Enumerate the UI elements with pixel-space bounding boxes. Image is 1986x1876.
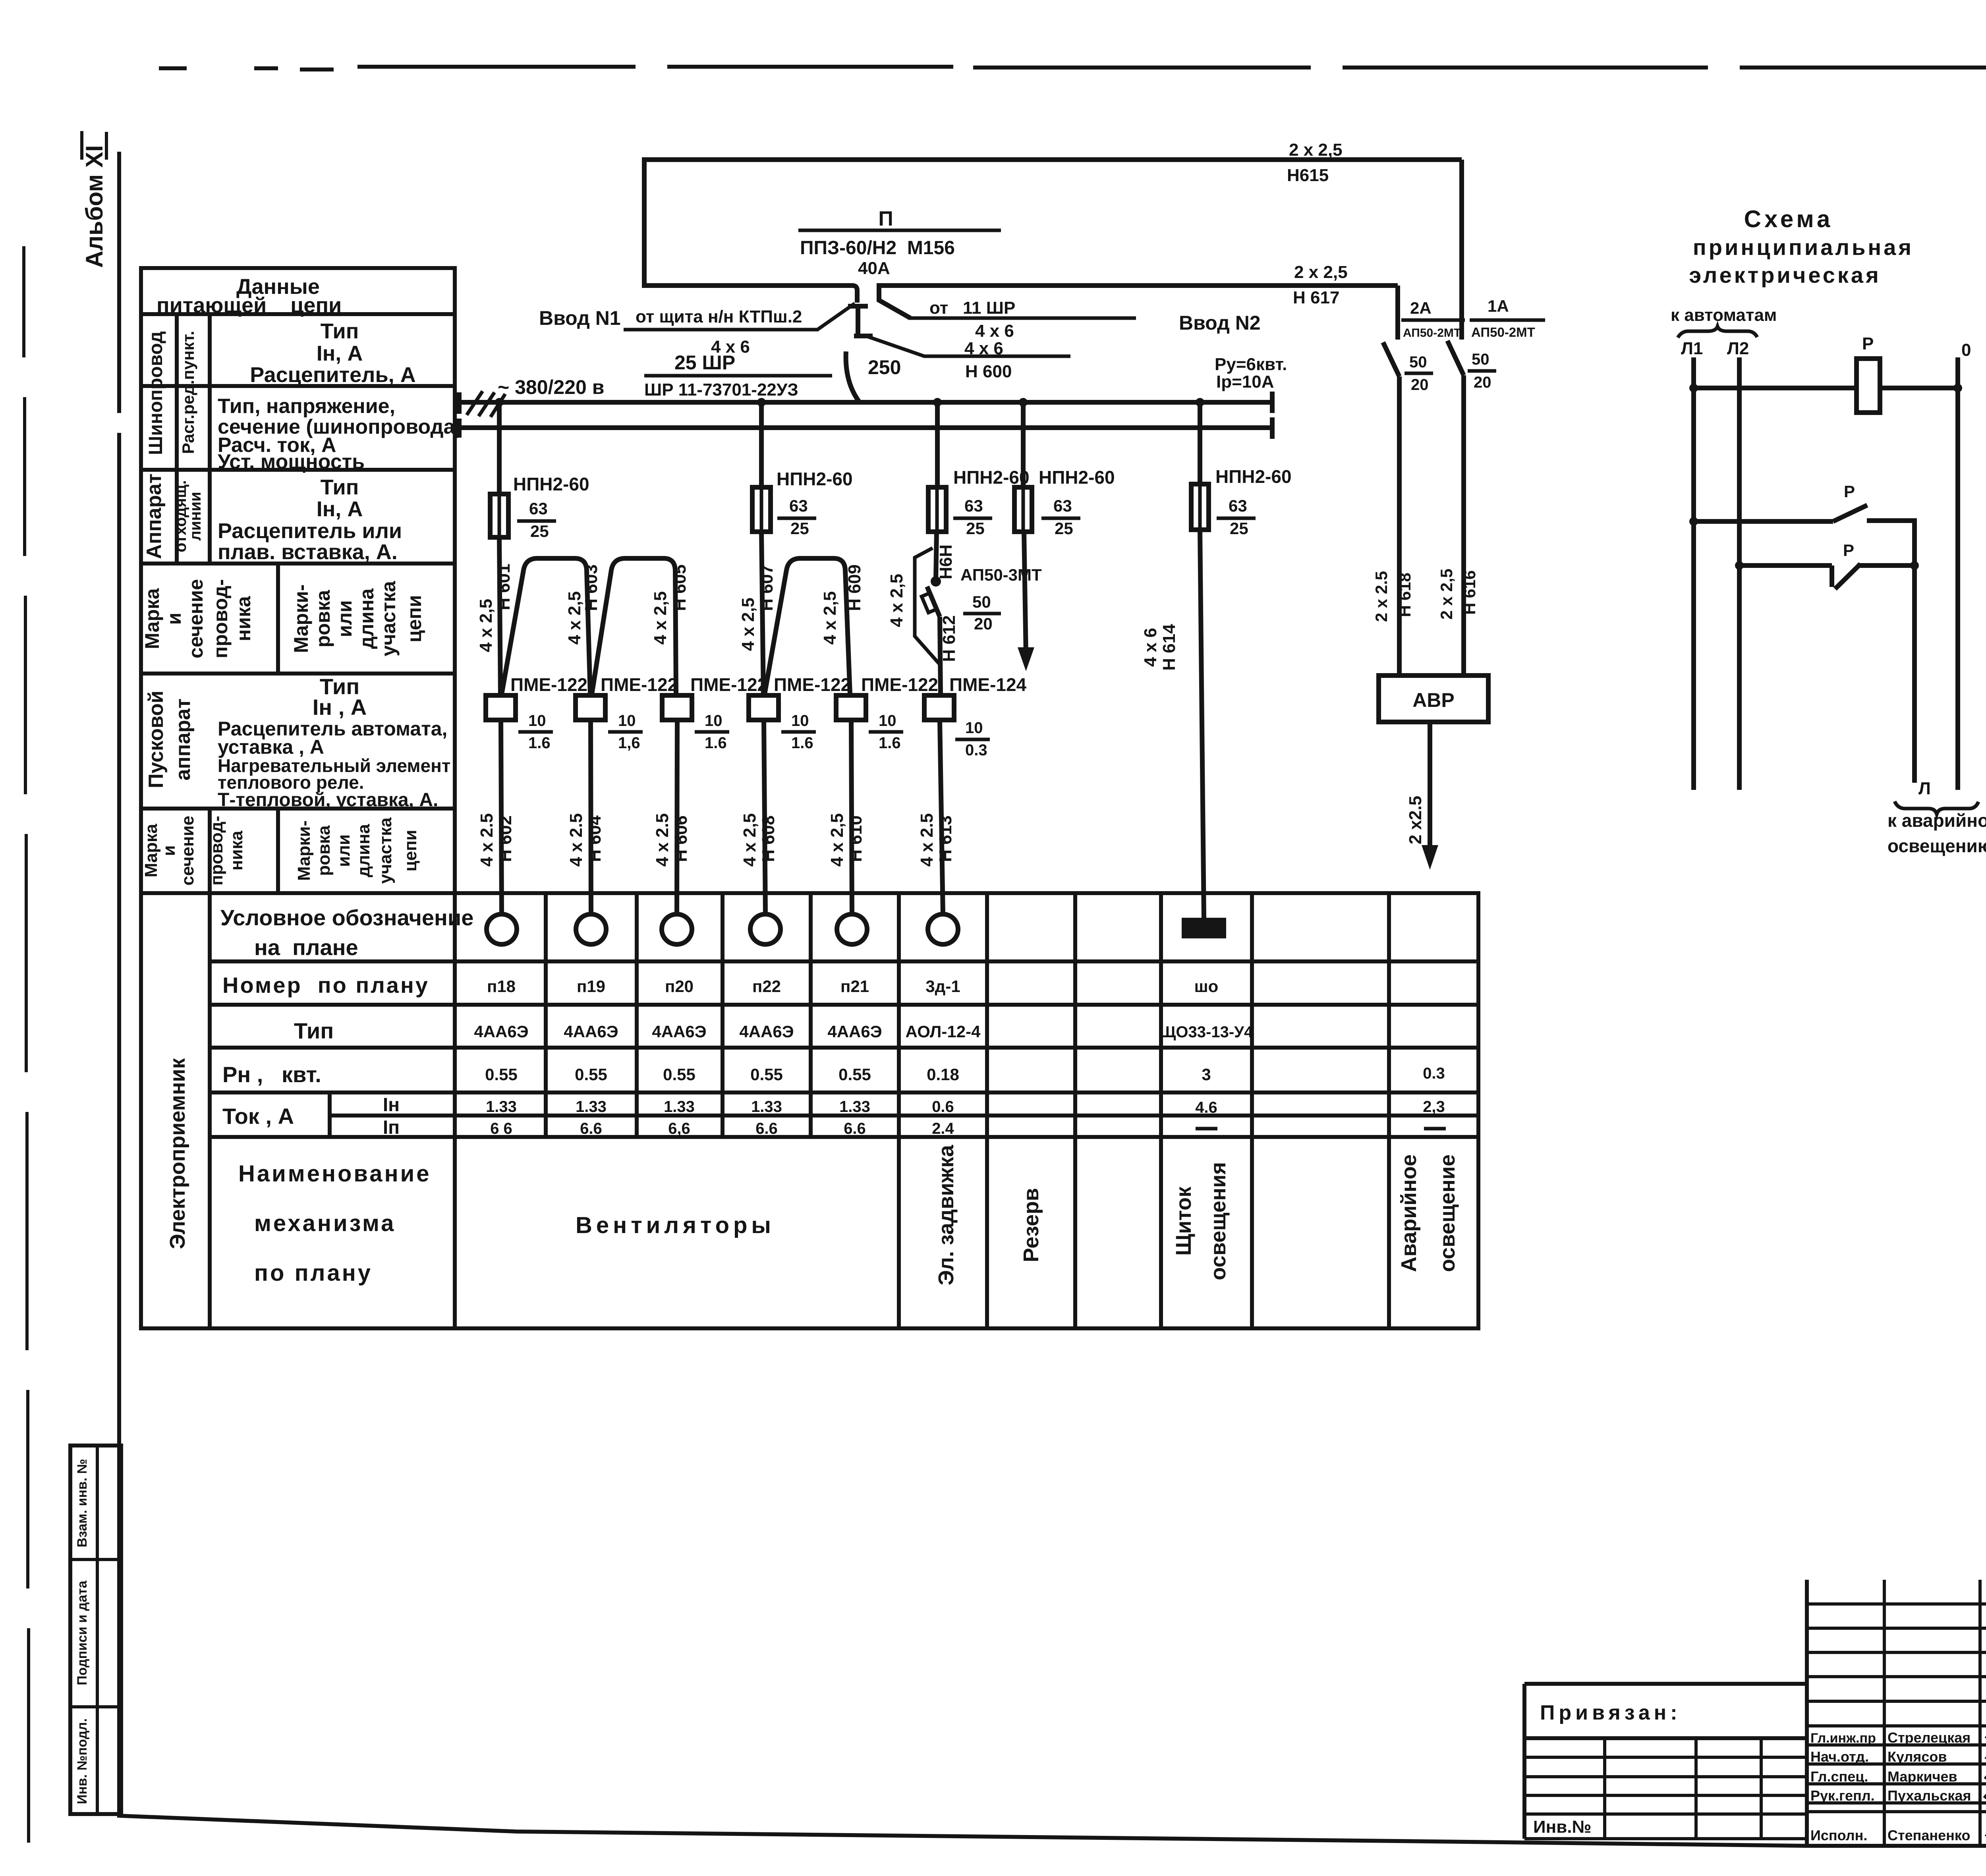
bottom table outer [141, 893, 1478, 1328]
svg-text:Схема: Схема [1744, 206, 1833, 232]
svg-text:п18: п18 [487, 977, 516, 996]
svg-text:или: или [334, 834, 354, 867]
svg-text:Тип: Тип [321, 475, 359, 499]
svg-text:ПМЕ-122: ПМЕ-122 [861, 674, 938, 695]
svg-text:Альбом XI: Альбом XI [81, 145, 108, 268]
svg-text:1.6: 1.6 [528, 734, 551, 752]
svg-text:25 ШР: 25 ШР [674, 351, 735, 374]
junction dot lamp line [1910, 561, 1919, 570]
svg-text:Н 617: Н 617 [1293, 288, 1339, 307]
bus right end bars [1270, 392, 1275, 439]
svg-text:Ввод N2: Ввод N2 [1179, 312, 1261, 334]
svg-text:Н 602: Н 602 [496, 815, 515, 862]
feeder wire 2 [761, 402, 763, 695]
contact P no2 blade [1835, 564, 1860, 589]
svg-text:ППЗ-60/Н2 М156: ППЗ-60/Н2 М156 [800, 237, 955, 259]
svg-text:1.33: 1.33 [839, 1098, 870, 1116]
left stamp column box [70, 1446, 121, 1814]
svg-text:Резерв: Резерв [1019, 1188, 1043, 1262]
svg-text:4 х 2.5: 4 х 2.5 [917, 813, 937, 867]
svg-text:сечение: сечение [185, 579, 207, 658]
svg-text:Н 605: Н 605 [670, 564, 690, 611]
svg-text:4АА6Э: 4АА6Э [652, 1022, 706, 1041]
fuse P PPZ-60 label fraction [798, 229, 1001, 232]
svg-text:Электроприемник: Электроприемник [166, 1058, 189, 1249]
signature table columns [1884, 1580, 1986, 1846]
loop link T1 to PME2 (wire N603) [502, 558, 590, 694]
svg-text:Степаненко: Степаненко [1887, 1827, 1970, 1843]
svg-text:6.6: 6.6 [580, 1120, 602, 1137]
tok A divider [328, 1092, 332, 1137]
svg-text:6,6: 6,6 [668, 1120, 690, 1137]
svg-text:4 х 2,5: 4 х 2,5 [820, 591, 840, 645]
svg-text:Н 618: Н 618 [1395, 573, 1414, 617]
motor symbol circles [487, 914, 517, 944]
svg-text:0.55: 0.55 [838, 1065, 871, 1084]
svg-text:к аварийному: к аварийному [1887, 810, 1986, 831]
svg-text:Инв. №подл.: Инв. №подл. [75, 1718, 90, 1804]
svg-text:Iн, А: Iн, А [317, 497, 363, 521]
svg-text:1.6: 1.6 [791, 734, 813, 752]
svg-text:электрическая: электрическая [1689, 262, 1881, 288]
feeder wire 4 [1023, 402, 1026, 656]
svg-text:п21: п21 [840, 977, 869, 996]
svg-text:Н 608: Н 608 [759, 815, 778, 862]
svg-text:2 х 2,5: 2 х 2,5 [1294, 262, 1348, 282]
svg-text:20: 20 [1411, 376, 1429, 394]
bus left end bars [457, 392, 462, 438]
top border (dashed) [159, 67, 1986, 69]
wire N615 loop (top line + left leg + bottom run to switch) [644, 160, 1462, 303]
svg-text:25: 25 [1055, 519, 1073, 538]
wire N617 (second line to AVR) with stub [879, 286, 1398, 318]
junction dot feeder4 [1019, 398, 1028, 407]
svg-text:Р: Р [1843, 541, 1854, 560]
svg-text:0.18: 0.18 [927, 1065, 959, 1084]
motor branch wire N613 [940, 720, 943, 914]
svg-text:3д-1: 3д-1 [925, 977, 960, 996]
svg-text:Л: Л [1918, 779, 1931, 798]
svg-text:АП50-3МТ: АП50-3МТ [960, 566, 1042, 584]
svg-text:Инв.№: Инв.№ [1533, 1817, 1592, 1837]
contact P no1 blade [1833, 505, 1867, 521]
junction dot feeder1 [495, 398, 504, 407]
svg-text:0.55: 0.55 [575, 1065, 607, 1084]
phase line L1 [1691, 357, 1696, 790]
svg-text:Н 604: Н 604 [585, 815, 605, 862]
svg-text:освещение: освещение [1435, 1154, 1459, 1272]
motor branch wire N606 [677, 720, 677, 914]
svg-text:10: 10 [705, 712, 723, 730]
svg-text:Шинопровод: Шинопровод [145, 331, 166, 455]
svg-text:10: 10 [618, 712, 636, 730]
svg-text:Ввод N1: Ввод N1 [539, 307, 621, 329]
svg-text:питающей цепи: питающей цепи [156, 293, 342, 317]
motor branch wire N610 [851, 720, 852, 914]
signature table frame [1807, 1580, 1986, 1846]
svg-text:0.6: 0.6 [932, 1098, 954, 1116]
starter PME-124 no6 [924, 695, 954, 720]
svg-text:Условное обозначение: Условное обозначение [220, 905, 473, 930]
svg-text:Кулясов: Кулясов [1887, 1749, 1947, 1765]
svg-text:Рн , квт.: Рн , квт. [222, 1062, 321, 1087]
svg-text:Л2: Л2 [1727, 339, 1749, 358]
svg-text:4 х 2,5: 4 х 2,5 [887, 574, 906, 627]
svg-text:п19: п19 [577, 977, 605, 996]
fuse F4 NPN2-60 [1014, 487, 1032, 532]
starter PME-122 no1 [486, 695, 516, 720]
contact P no1 wire [1694, 521, 1915, 566]
svg-text:Н 613: Н 613 [936, 815, 955, 862]
coil circuit wire [1694, 386, 1958, 390]
svg-text:2.4: 2.4 [932, 1120, 954, 1137]
svg-text:Iп: Iп [383, 1117, 400, 1138]
left outer dashed border [24, 246, 29, 1843]
svg-text:Н 606: Н 606 [671, 815, 691, 862]
svg-text:10: 10 [965, 719, 983, 737]
svg-text:63: 63 [1229, 496, 1247, 515]
svg-text:Пухальская: Пухальская [1887, 1787, 1971, 1804]
svg-text:6.6: 6.6 [755, 1120, 778, 1137]
bus hatch marks [467, 391, 505, 417]
junction dot L2 contact [1735, 561, 1744, 570]
svg-text:ника: ника [232, 596, 255, 641]
svg-text:Н 601: Н 601 [494, 564, 514, 610]
svg-text:20: 20 [1474, 374, 1491, 391]
privyazan box [1524, 1684, 1807, 1839]
svg-text:уставка , А: уставка , А [218, 736, 324, 758]
svg-text:4.6: 4.6 [1195, 1099, 1217, 1116]
breaker 1A blade [1447, 341, 1464, 375]
row lines [210, 961, 1478, 1137]
svg-text:2 х 2.5: 2 х 2.5 [1372, 571, 1391, 622]
electropriyomnik column [208, 893, 212, 1328]
svg-text:4 х 2.5: 4 х 2.5 [566, 813, 586, 867]
signature table row lines [1807, 1604, 1986, 1812]
svg-text:аппарат: аппарат [172, 699, 195, 781]
svg-text:0.55: 0.55 [485, 1065, 518, 1084]
svg-text:Расг.ред.пункт.: Расг.ред.пункт. [179, 331, 197, 454]
svg-text:63: 63 [1053, 496, 1072, 515]
svg-text:ровка: ровка [314, 825, 334, 876]
motor branch wire N604 [591, 720, 591, 914]
svg-text:0.3: 0.3 [965, 741, 987, 759]
svg-text:НПН2-60: НПН2-60 [777, 469, 853, 489]
svg-text:Щиток: Щиток [1172, 1186, 1196, 1256]
left stamp inner divider [70, 1446, 121, 1814]
BOTTOM CONSUMERS TABLE [141, 893, 1478, 1328]
svg-text:Н6Н: Н6Н [936, 544, 956, 579]
svg-text:1.33: 1.33 [751, 1098, 782, 1116]
svg-text:1.33: 1.33 [664, 1098, 695, 1116]
svg-text:250: 250 [868, 356, 901, 378]
svg-text:Iн , А: Iн , А [313, 695, 367, 720]
svg-text:4 х 2,5: 4 х 2,5 [740, 813, 759, 867]
svg-text:0.55: 0.55 [750, 1065, 783, 1084]
svg-text:ШР 11-73701-22УЗ: ШР 11-73701-22УЗ [644, 380, 798, 400]
svg-text:4 х 2,5: 4 х 2,5 [738, 598, 758, 651]
fuse F1 NPN2-60 [490, 494, 508, 537]
svg-text:Марки-: Марки- [290, 584, 312, 653]
svg-text:от щита н/н КТПш.2: от щита н/н КТПш.2 [636, 307, 802, 326]
svg-text:цепи: цепи [403, 595, 425, 642]
svg-text:4АА6Э: 4АА6Э [739, 1022, 794, 1041]
svg-text:участка: участка [376, 817, 395, 884]
wire from N617 down to breaker 2A [1395, 286, 1400, 340]
svg-text:Р: Р [1862, 334, 1874, 353]
AVR unit box [1379, 676, 1488, 722]
svg-text:4 х 2.5: 4 х 2.5 [477, 813, 496, 867]
svg-text:ЩО33-13-У4: ЩО33-13-У4 [1160, 1023, 1253, 1041]
MAIN ONE-LINE DIAGRAM [459, 140, 1462, 918]
contact P no2 wire [1739, 566, 1915, 587]
svg-text:1,6: 1,6 [618, 734, 640, 752]
left inner border [117, 152, 121, 1816]
svg-text:4 х 6: 4 х 6 [975, 321, 1014, 341]
breaker 2A blade [1383, 342, 1399, 376]
svg-text:от 11 ШР: от 11 ШР [929, 298, 1015, 318]
breaker AP50-3MT blade [927, 587, 940, 617]
svg-text:0: 0 [1961, 340, 1971, 360]
motor branch wire N602 [501, 720, 502, 914]
svg-text:НПН2-60: НПН2-60 [953, 467, 1030, 488]
svg-text:АВР: АВР [1412, 689, 1455, 711]
feeder wire 3 [936, 402, 937, 581]
neutral line 0 [1955, 357, 1960, 790]
svg-text:Взам. инв. №: Взам. инв. № [75, 1459, 90, 1547]
svg-text:4АА6Э: 4АА6Э [564, 1022, 618, 1041]
svg-text:2 х2.5: 2 х2.5 [1406, 796, 1425, 844]
album label overline [82, 131, 106, 160]
svg-text:25: 25 [530, 522, 549, 540]
svg-text:Наименование: Наименование [238, 1161, 431, 1187]
svg-text:Гл.инж.пр: Гл.инж.пр [1810, 1731, 1876, 1746]
label col right edge [453, 893, 457, 1328]
svg-text:10: 10 [879, 712, 896, 730]
svg-text:АОЛ-12-4: АОЛ-12-4 [906, 1022, 981, 1041]
svg-text:6.6: 6.6 [844, 1120, 866, 1137]
privyazan grid rows [1524, 1757, 1807, 1839]
svg-text:Л1: Л1 [1681, 339, 1703, 358]
svg-text:Н615: Н615 [1287, 166, 1329, 185]
AVR BRANCH [1372, 139, 1986, 870]
svg-text:10: 10 [528, 712, 546, 730]
svg-text:П: П [878, 207, 893, 230]
svg-text:25: 25 [790, 519, 809, 538]
privyazan grid cols [1605, 1738, 1761, 1839]
svg-text:Уст. мощность: Уст. мощность [218, 450, 365, 473]
svg-text:2А: 2А [1410, 299, 1432, 317]
svg-text:ПМЕ-124: ПМЕ-124 [949, 674, 1027, 695]
svg-text:50: 50 [1409, 353, 1427, 371]
lamp feeder line L [1912, 566, 1917, 783]
svg-text:2 х 2,5: 2 х 2,5 [1437, 569, 1456, 620]
svg-text:3: 3 [1202, 1065, 1211, 1084]
svg-text:Номер по плану: Номер по плану [222, 973, 429, 998]
svg-text:ровка: ровка [312, 589, 334, 647]
svg-text:провод-: провод- [209, 579, 232, 658]
svg-text:Тип: Тип [294, 1018, 334, 1043]
svg-text:Привязан:: Привязан: [1540, 1701, 1681, 1724]
svg-text:4 х 2,5: 4 х 2,5 [476, 599, 496, 652]
svg-text:40А: 40А [858, 259, 890, 278]
svg-text:Исполн.: Исполн. [1810, 1827, 1867, 1843]
breaker AP50-3MT case [922, 593, 936, 612]
svg-text:длина: длина [355, 588, 378, 649]
svg-text:по плану: по плану [254, 1260, 373, 1286]
bottom border (sloped) [117, 1816, 1807, 1846]
col dividers rows2-4 [177, 314, 210, 893]
feeder wire 5 [1200, 402, 1204, 918]
junction dot feeder3 [933, 398, 942, 407]
svg-text:1.33: 1.33 [576, 1098, 607, 1116]
svg-text:10: 10 [791, 712, 809, 730]
junction dot L1 contact [1689, 517, 1698, 526]
svg-text:4 х 6: 4 х 6 [1141, 628, 1160, 667]
svg-text:ПМЕ-122: ПМЕ-122 [510, 674, 587, 695]
svg-text:4 х 2,5: 4 х 2,5 [651, 591, 670, 645]
switch QS 250 (input disconnector) [848, 306, 873, 336]
wire from N615 down to breaker 1A [1459, 160, 1464, 340]
svg-text:цепи: цепи [401, 830, 420, 871]
svg-text:1А: 1А [1488, 297, 1509, 315]
data col lines full [899, 893, 1389, 1328]
svg-text:АП50-2МТ: АП50-2МТ [1403, 326, 1461, 340]
reserve arrow head [1018, 647, 1034, 671]
starter PME-122 no2 [576, 695, 605, 720]
svg-text:Н 616: Н 616 [1460, 570, 1479, 615]
svg-text:НПН2-60: НПН2-60 [1215, 466, 1292, 487]
svg-text:6 6: 6 6 [490, 1120, 512, 1137]
relay P coil [1857, 359, 1880, 413]
wire N618 [1397, 376, 1402, 676]
AVR output wire 2x2.5 [1428, 722, 1432, 852]
svg-text:линии: линии [187, 492, 204, 540]
row5/7 cell divider [276, 564, 280, 893]
starter PME-122 no4 [749, 695, 779, 720]
svg-text:Рук.гепл.: Рук.гепл. [1810, 1787, 1875, 1804]
svg-text:0.55: 0.55 [663, 1065, 695, 1084]
svg-text:63: 63 [964, 496, 983, 515]
LEFT DATA TABLE [141, 268, 462, 893]
starter PME-122 no3 [662, 695, 692, 720]
data col lines short [546, 893, 811, 1137]
lighting panel symbol (filled) [1182, 918, 1226, 938]
svg-text:Н 612: Н 612 [939, 615, 959, 662]
starter PME-122 no5 [836, 695, 866, 720]
SCHEMA PRINCIPIAL [1671, 206, 1986, 856]
svg-text:Марки-: Марки- [294, 820, 314, 881]
svg-text:Марка: Марка [141, 588, 163, 649]
svg-text:50: 50 [972, 593, 991, 611]
svg-text:сечение: сечение [178, 816, 197, 886]
phase line L2 [1737, 357, 1742, 790]
svg-text:к автоматам: к автоматам [1671, 305, 1777, 325]
svg-text:Н 610: Н 610 [846, 815, 865, 862]
svg-text:1.6: 1.6 [879, 734, 901, 752]
svg-text:освещения: освещения [1206, 1162, 1230, 1280]
svg-text:механизма: механизма [254, 1210, 396, 1236]
svg-text:Н 603: Н 603 [582, 564, 601, 611]
svg-text:Iр=10А: Iр=10А [1216, 372, 1274, 392]
svg-text:п22: п22 [752, 977, 781, 996]
svg-text:на плане: на плане [254, 935, 358, 960]
svg-text:Ток , А: Ток , А [222, 1104, 294, 1129]
svg-text:Н 614: Н 614 [1159, 624, 1179, 671]
wire N616 [1461, 375, 1466, 676]
svg-text:Маркичев: Маркичев [1887, 1768, 1957, 1785]
svg-text:2 х 2,5: 2 х 2,5 [1289, 140, 1343, 160]
svg-text:ПМЕ-122: ПМЕ-122 [774, 674, 851, 695]
svg-text:плав. вставка, А.: плав. вставка, А. [218, 540, 398, 564]
svg-text:Марка: Марка [141, 824, 161, 878]
svg-text:4АА6Э: 4АА6Э [474, 1022, 528, 1041]
junction dot feeder2 [757, 398, 766, 407]
svg-text:0.3: 0.3 [1423, 1065, 1445, 1082]
svg-text:НПН2-60: НПН2-60 [513, 474, 589, 494]
svg-text:Нач.отд.: Нач.отд. [1810, 1749, 1869, 1765]
svg-text:освещению: освещению [1887, 836, 1986, 856]
svg-text:4 х 2,5: 4 х 2,5 [827, 813, 847, 867]
svg-text:п20: п20 [665, 977, 694, 996]
TITLE BLOCK [1524, 1580, 1986, 1847]
svg-text:Ру=6квт.: Ру=6квт. [1215, 355, 1287, 374]
AVR output arrow head [1422, 845, 1438, 870]
svg-text:принципиальная: принципиальная [1693, 235, 1914, 260]
fuse F3 NPN2-60 [928, 487, 946, 532]
junction dot N611 [931, 576, 941, 587]
svg-text:участка: участка [377, 581, 400, 656]
svg-text:Н 600: Н 600 [965, 362, 1012, 381]
svg-text:63: 63 [789, 496, 808, 515]
svg-text:провод-: провод- [207, 816, 226, 886]
svg-text:Н 609: Н 609 [845, 564, 864, 611]
svg-text:2,3: 2,3 [1423, 1098, 1445, 1116]
svg-text:Гл.спец.: Гл.спец. [1810, 1768, 1868, 1785]
feeder wire 1 [499, 402, 500, 695]
svg-text:Расцепитель или: Расцепитель или [218, 519, 402, 543]
svg-text:Р: Р [1844, 482, 1855, 501]
svg-text:Расцепитель, А: Расцепитель, А [250, 363, 415, 387]
svg-text:Н 607: Н 607 [757, 564, 777, 611]
svg-text:АП50-2МТ: АП50-2МТ [1471, 325, 1535, 340]
loop link T3 to PME5 (wire N609) [765, 558, 850, 694]
svg-text:Стрелецкая: Стрелецкая [1887, 1729, 1971, 1746]
motor branch wire N608 [764, 720, 765, 914]
svg-text:ПМЕ-122: ПМЕ-122 [690, 674, 767, 695]
svg-text:ника: ника [227, 830, 246, 870]
fuse F5 NPN2-60 [1191, 484, 1209, 530]
svg-text:63: 63 [529, 499, 548, 518]
main bus upper line [459, 400, 1272, 405]
svg-text:50: 50 [1472, 351, 1489, 368]
junction dot feeder5 [1196, 398, 1204, 407]
wire N612 [940, 617, 941, 694]
svg-text:25: 25 [1230, 519, 1248, 538]
brace k avariynomu [1895, 801, 1978, 814]
loop link T2 to PME3 (wire N605) [592, 558, 676, 694]
svg-text:Iн: Iн [383, 1094, 400, 1116]
svg-text:20: 20 [974, 614, 993, 633]
svg-text:Эл. задвижка: Эл. задвижка [934, 1145, 958, 1285]
svg-text:Аппарат: Аппарат [143, 473, 166, 559]
svg-text:ПМЕ-122: ПМЕ-122 [601, 674, 678, 695]
svg-text:НПН2-60: НПН2-60 [1039, 467, 1115, 488]
svg-text:1.33: 1.33 [486, 1098, 517, 1116]
table outer box [141, 268, 455, 893]
bypass wire 4x2.5 around breaker [915, 548, 939, 664]
fuse F2 NPN2-60 [752, 487, 771, 532]
